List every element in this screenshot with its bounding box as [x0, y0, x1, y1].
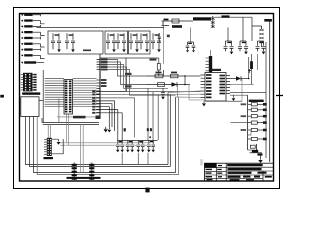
oscillator chain wire 2 — [146, 84, 190, 86]
ground arrow under wire — [233, 95, 235, 98]
data bus wires to spine — [73, 79, 97, 107]
label below right — [249, 100, 264, 102]
wire U2 to right rail 4 — [230, 94, 248, 96]
label for JP1 — [22, 92, 40, 94]
decoupling capacitor C13 C14 — [151, 33, 161, 49]
wire U2 to right rail 3 — [230, 92, 266, 94]
IC U2 left pins — [201, 75, 206, 97]
wire spine top to oscillator — [100, 58, 159, 64]
title block vertical dividers — [216, 163, 263, 181]
net label text top right — [222, 15, 230, 17]
relay K1 box — [21, 97, 39, 117]
capacitor C23 C24 — [126, 140, 134, 150]
wire spine top fanout 1 — [100, 60, 146, 77]
wire drop to cap group A — [227, 28, 229, 42]
title block horizontal rules left — [205, 168, 227, 179]
title block revision cell text — [218, 165, 222, 166]
header H2 left stubs — [44, 140, 47, 155]
wire J2 up — [210, 50, 212, 56]
wire drop to cap group B — [242, 17, 244, 41]
oscillator chain wire 1 — [146, 75, 185, 77]
title block outline — [205, 163, 274, 181]
bus spine pin ticks — [97, 60, 101, 95]
wire spine row 7 — [100, 110, 118, 140]
capacitor C30 to ground — [161, 88, 165, 97]
wire spine row 6 — [100, 107, 109, 127]
capacitor C19 C20 — [256, 41, 266, 51]
decoupling capacitor C5 C6 — [106, 33, 116, 49]
net entry TP4 — [21, 31, 23, 33]
connector JP1 right pin labels — [33, 74, 36, 76]
ground arrow near H2 — [52, 139, 59, 141]
capacitor C27 C28 — [147, 140, 155, 150]
net entry TP3 — [21, 26, 23, 28]
capacitor bank box 1 — [48, 31, 103, 54]
capacitor C33 left small — [158, 33, 161, 42]
resistor R2 — [171, 74, 179, 78]
wire spine top fanout 4 — [100, 67, 201, 92]
wire drop left dark — [58, 99, 60, 123]
label under transistors — [67, 177, 101, 179]
bus spine lower pin ticks and labels — [96, 91, 100, 112]
wire to U2 from oscillator — [185, 75, 201, 77]
resistor R10 row — [248, 122, 252, 124]
decoupling capacitor C11 C12 — [139, 33, 149, 49]
pin header H2 — [47, 138, 52, 156]
bottom edge centering mark — [145, 188, 149, 193]
junction mark mid 2 — [147, 128, 149, 131]
wire below U2 horizontal — [205, 100, 242, 102]
wire spine row 4 — [100, 101, 115, 131]
wire loop right vertical 3 — [85, 97, 176, 173]
ground symbol G1 — [104, 127, 108, 129]
junction mark mid — [124, 128, 126, 131]
capacitor C29 — [158, 83, 165, 87]
net entry TP8 — [21, 55, 23, 57]
wire crystal vertical — [162, 21, 164, 64]
title block title text line 1 — [227, 164, 263, 166]
capacitor C17 C18 — [238, 41, 248, 51]
net entry TP1 — [21, 14, 23, 16]
IC U2 right pins — [226, 76, 230, 94]
bus spine net U1 — [99, 58, 101, 119]
ground symbol G2 — [108, 127, 110, 129]
title block header cell filled — [205, 163, 217, 167]
decoupling capacitor C1 C2 — [51, 33, 61, 49]
wire spine row 1 — [100, 58, 126, 92]
net label on staircase 1 — [125, 73, 132, 75]
junction dot right rail — [248, 78, 250, 80]
capacitor C21 C22 — [116, 140, 124, 150]
wire ladder row5 hook — [248, 130, 251, 135]
resistor R9 row — [248, 115, 252, 117]
capacitor pair C31 C32 — [190, 28, 192, 43]
net entry TP2 — [21, 20, 23, 22]
wire right rail vertical B — [257, 54, 259, 70]
capacitor bank box 3 — [129, 31, 151, 54]
label for capacitor bank — [83, 50, 91, 52]
wire right rail vertical A — [248, 57, 250, 79]
transistor stack Q2 — [91, 163, 93, 181]
wire loop 3 from K1 — [34, 116, 86, 172]
vcc arrow top right of U2 — [248, 71, 251, 74]
net entry TP7 — [21, 49, 23, 51]
far right vertical rail — [269, 22, 271, 163]
right ladder spine — [247, 95, 249, 150]
connector J2 — [209, 56, 212, 73]
wire drop left gray pair — [67, 114, 69, 145]
wire Q3 down arrow — [260, 156, 262, 160]
wire long net from TP3 — [33, 26, 163, 27]
diode D3 — [172, 82, 178, 87]
header H2 label — [44, 157, 54, 159]
net entry TP9 — [21, 62, 23, 64]
title block horizontal rules right — [226, 167, 273, 178]
net label text top right corner — [264, 19, 272, 22]
sheet inner border — [20, 14, 274, 182]
crystal Y1 — [212, 16, 214, 28]
wire spine to box stub — [99, 54, 101, 58]
right vertical rail long — [265, 42, 267, 158]
transistor Q3 — [256, 144, 258, 150]
wires into header H2 top — [48, 125, 50, 138]
wire under spine — [57, 116, 100, 118]
wire U2 to right rail 2 — [230, 84, 254, 86]
resistor R13 small — [250, 145, 255, 148]
wire spine top fanout 5 — [100, 70, 176, 96]
wire stub continuations to bottom loop — [122, 153, 148, 165]
wire drop to bottom rail 3 — [157, 95, 159, 140]
title block doc number text — [228, 176, 241, 178]
title block sheet text — [230, 179, 240, 180]
wire spine top fanout 2 — [100, 62, 146, 85]
wire loop 2 from K1 — [30, 116, 97, 166]
capacitor bank box 2 — [105, 31, 128, 54]
wire H2 right loop — [52, 139, 63, 154]
wire drop to bottom rail 1 — [147, 88, 149, 140]
wire spine row 3 — [100, 98, 135, 138]
wire loop 4 from K1 — [37, 97, 178, 174]
junction dot rail right — [149, 136, 151, 138]
label U1 — [73, 116, 86, 119]
gray vertical pair to Q stacks — [81, 125, 84, 172]
relay K1 pin stub right — [39, 100, 43, 102]
resistor R11 row — [248, 129, 252, 131]
wire loop right vertical 1 — [96, 93, 168, 165]
transistor stack Q1 — [73, 163, 75, 181]
decoupling capacitor C3 C4 — [65, 33, 75, 49]
wire vcc rail right — [252, 26, 262, 41]
net label on staircase 2 — [125, 85, 132, 87]
resistor R6 — [250, 61, 253, 69]
resistor R5 — [157, 64, 160, 71]
junction crystal right — [184, 76, 186, 85]
wire drop to fuse F1 — [251, 17, 253, 26]
connector JP1 — [23, 73, 33, 92]
faint mark left of title block — [200, 159, 202, 165]
connector JP1 left pin stubs — [21, 75, 23, 90]
wire loop 1 from K1 — [26, 116, 97, 164]
label U2 — [212, 69, 221, 71]
capacitor C25 C26 — [137, 140, 145, 150]
resistor R8 row — [248, 109, 252, 111]
net entry TP6 — [21, 43, 23, 45]
nested bus wires to U2 — [168, 91, 201, 97]
bus spine pin labels — [101, 59, 108, 61]
wire spine row 2 gray — [100, 93, 170, 95]
junction dot crystal net — [163, 27, 165, 29]
resistor R12 row — [248, 138, 252, 140]
bottom capacitor rail wire — [117, 140, 158, 142]
capacitor C15 C16 — [224, 41, 234, 51]
sheet outer border — [14, 8, 280, 189]
resistor network RN1 — [64, 80, 73, 115]
left edge centering mark — [0, 95, 4, 98]
bus wires mid bottom gray — [60, 143, 150, 145]
wire oscillator drop — [177, 85, 179, 98]
label U1b — [96, 116, 101, 119]
wire drop from diode net — [241, 79, 243, 102]
wire vertical feeder — [42, 70, 44, 123]
resistor R7 row — [248, 103, 252, 105]
net label text above wire — [172, 25, 182, 28]
title block title text line 3 — [228, 172, 252, 174]
decoupling capacitor C7 C8 — [116, 33, 126, 49]
wire ladder row3 left extension — [231, 122, 248, 124]
wire drop to bottom rail 2 — [152, 92, 154, 140]
wire loop right vertical 2 — [96, 94, 170, 166]
wire from crystal to right rail — [215, 16, 252, 18]
wire spine row 8 — [100, 113, 122, 140]
label near R5 — [150, 59, 157, 61]
net label VCC text — [193, 17, 211, 20]
fuse F1 — [261, 26, 263, 29]
wire spine top fanout 3 — [100, 65, 168, 89]
gray wire drop below U2 — [189, 85, 205, 100]
connector JP1 right pin stubs — [33, 75, 37, 90]
wire K1 to lower bus — [42, 118, 99, 125]
title block title text line 2 — [228, 168, 262, 170]
resistor R1 — [155, 74, 163, 78]
right edge centering mark — [276, 95, 283, 97]
wire spine row 5 — [100, 104, 112, 127]
series component L1 — [162, 21, 170, 26]
net entry TP5 — [21, 37, 23, 39]
ground arrow mid right — [203, 101, 205, 103]
decoupling capacitor C9 C10 — [129, 33, 139, 49]
diode D1 — [230, 78, 236, 80]
component FB1 — [172, 19, 179, 23]
data bus wires left — [45, 79, 64, 107]
IC U2 body — [205, 73, 226, 102]
wire Q3 left hook — [248, 149, 252, 151]
wire top net — [162, 20, 194, 22]
